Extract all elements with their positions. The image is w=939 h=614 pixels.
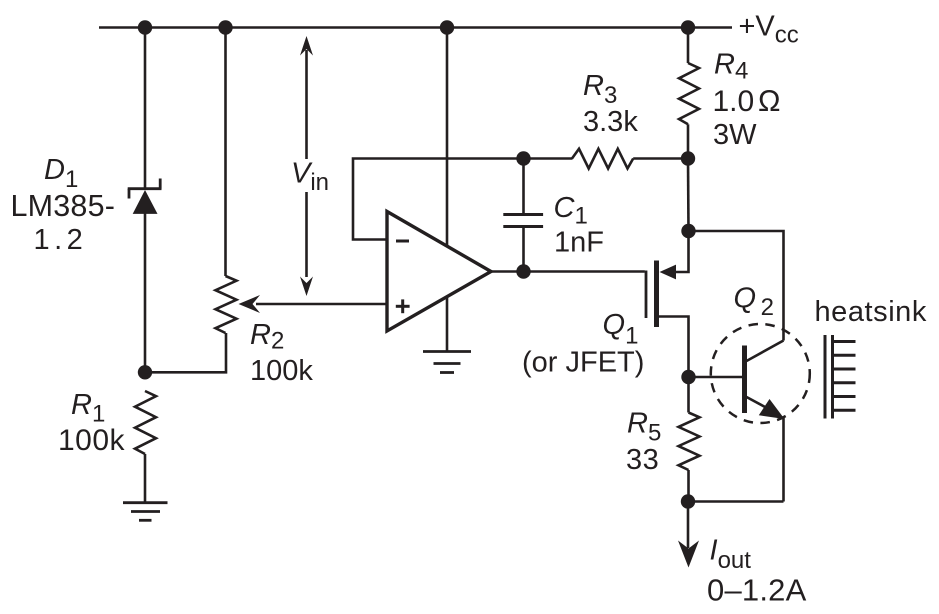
op-amp U1 triangle bbox=[387, 212, 491, 332]
resistor R4 zigzag bbox=[679, 63, 699, 124]
svg-text:heatsink: heatsink bbox=[815, 296, 927, 328]
svg-text:3.3k: 3.3k bbox=[583, 106, 638, 138]
wire R4 bottom lead to node bbox=[687, 124, 690, 158]
svg-text:(or JFET): (or JFET) bbox=[522, 347, 644, 379]
svg-text:R1: R1 bbox=[71, 389, 105, 428]
svg-text:1.0Ω: 1.0Ω bbox=[713, 85, 781, 118]
potentiometer R2 wiper arrow bbox=[239, 295, 388, 313]
potentiometer R2 zigzag bbox=[216, 276, 237, 333]
svg-text:R3: R3 bbox=[583, 70, 617, 109]
node junction dot on rail above R4 bbox=[681, 20, 695, 34]
wire from D1 anode down to node A bbox=[144, 213, 147, 372]
svg-text:1.2: 1.2 bbox=[34, 224, 88, 256]
transistor Q2 bbox=[745, 341, 785, 420]
wire Q2 collector from drain node bbox=[689, 231, 784, 341]
svg-text:3W: 3W bbox=[713, 119, 757, 151]
node junction dot R5 bottom / Q2 emitter bbox=[681, 494, 695, 508]
wire from rail down to D1 cathode bbox=[144, 28, 147, 189]
resistor R5 zigzag bbox=[679, 413, 700, 471]
resistor R1 zigzag bbox=[135, 391, 156, 454]
svg-text:100k: 100k bbox=[58, 424, 126, 457]
wire feedback from inverting input up and right to C1/R3 node bbox=[353, 159, 524, 240]
svg-text:Q2: Q2 bbox=[734, 283, 774, 322]
svg-text:+Vcc: +Vcc bbox=[739, 11, 799, 49]
node junction dot on rail above D1 bbox=[138, 20, 152, 34]
wire R3 right lead bbox=[633, 157, 688, 160]
node junction dot on rail above op-amp supply bbox=[440, 20, 454, 34]
ground below op-amp bbox=[423, 352, 471, 373]
svg-text:0–1.2A: 0–1.2A bbox=[707, 573, 807, 608]
wire op-amp supply from rail bbox=[446, 28, 449, 247]
op-amp plus sign bbox=[396, 299, 410, 313]
wire R1 bottom to ground bbox=[144, 454, 147, 503]
op-amp minus sign bbox=[396, 240, 409, 243]
svg-text:LM385-: LM385- bbox=[11, 189, 116, 223]
wire R3 left lead bbox=[524, 157, 573, 160]
wire R5 top lead bbox=[687, 377, 690, 413]
dashed package circle around Q2 bbox=[711, 324, 810, 423]
node junction dot MOSFET source / Q2 base / R5 top bbox=[681, 370, 695, 384]
capacitor C1 bbox=[503, 159, 543, 272]
wire Q2 base from source node bbox=[689, 376, 743, 379]
wire R5 bottom lead bbox=[687, 470, 690, 502]
wire from rail down to R2 top bbox=[224, 28, 227, 277]
Vin measurement arrow (double headed) bbox=[300, 36, 313, 296]
svg-text:33: 33 bbox=[626, 444, 659, 476]
node junction dot op-amp output / C1 bottom bbox=[516, 264, 530, 278]
node junction dot C1 top / feedback bbox=[516, 151, 530, 165]
svg-text:R2: R2 bbox=[250, 319, 284, 355]
wire op-amp output to gate bbox=[491, 270, 645, 273]
heatsink symbol bbox=[825, 335, 856, 419]
svg-text:Q1: Q1 bbox=[603, 309, 639, 350]
wire R4 from rail bbox=[687, 28, 690, 64]
transistor Q1 MOSFET bbox=[646, 238, 689, 377]
wire emitter return to output node bbox=[688, 500, 784, 503]
svg-text:D1: D1 bbox=[44, 154, 78, 193]
svg-text:C1: C1 bbox=[554, 192, 588, 230]
Iout output arrow bbox=[678, 502, 699, 568]
svg-text:R5: R5 bbox=[627, 408, 661, 447]
wire top +Vcc rail bbox=[99, 26, 732, 29]
resistor R3 zigzag bbox=[572, 149, 633, 169]
node junction dot MOSFET drain / Q2 collector bbox=[681, 224, 695, 238]
wire node A to R2 bottom bbox=[145, 333, 226, 372]
node junction dot R3/R4 bbox=[681, 151, 695, 165]
svg-text:1nF: 1nF bbox=[554, 227, 604, 259]
ground below R1 bbox=[123, 503, 168, 521]
svg-text:Iout: Iout bbox=[710, 535, 752, 575]
node A junction dot (D1/R1/R2 bottom) bbox=[138, 365, 152, 379]
wire node R3/R4 down to MOSFET drain node bbox=[687, 159, 690, 232]
diode D1 zener LM385-1.2 bbox=[128, 179, 162, 214]
svg-text:Vin: Vin bbox=[291, 157, 329, 196]
svg-text:100k: 100k bbox=[250, 355, 313, 387]
wire Q2 emitter down bbox=[782, 418, 785, 502]
svg-text:R4: R4 bbox=[714, 49, 748, 85]
node junction dot on rail above R2 bbox=[218, 20, 232, 34]
wire op-amp to ground bbox=[446, 297, 449, 352]
